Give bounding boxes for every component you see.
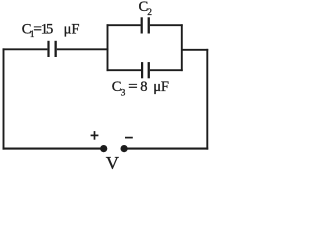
wire: bottom right segment [124,148,208,150]
wire: C3 to box bottom-right [150,69,183,71]
svg-text:3: 3 [121,88,126,98]
label - (battery negative) [125,137,133,139]
svg-text:F: F [161,79,169,95]
wire: box right to outer right edge [182,49,208,51]
wire: bottom left segment [3,148,104,150]
wire: outer left edge [3,48,5,149]
svg-text:μF: μF [64,22,80,38]
wire: outer right edge [206,49,208,150]
capacitor C2 right plate [148,17,150,33]
capacitor C1 right plate [55,41,57,57]
svg-text:8: 8 [140,79,147,95]
node: parallel box right edge [181,24,183,71]
capacitor C3 left plate [141,62,143,78]
wire: box top-left to C2 [107,24,141,26]
svg-text:=: = [128,79,138,95]
svg-text:2: 2 [147,8,152,18]
node: parallel box left edge [107,24,109,71]
svg-text:5: 5 [46,22,53,38]
label + (battery positive) [91,134,99,136]
node: battery left terminal dot [100,145,107,152]
wire: C2 to box top-right [150,24,183,26]
node: battery right terminal dot [121,145,128,152]
wire: box bottom-left to C3 [107,69,142,71]
capacitor C3 right plate [148,62,150,78]
wire: top-left horizontal from left edge to C1 [3,48,48,50]
capacitor C2 left plate [141,17,143,33]
wire: C1 to parallel box left [57,48,109,50]
svg-text:V: V [106,153,120,171]
capacitor C1 left plate [47,41,49,57]
